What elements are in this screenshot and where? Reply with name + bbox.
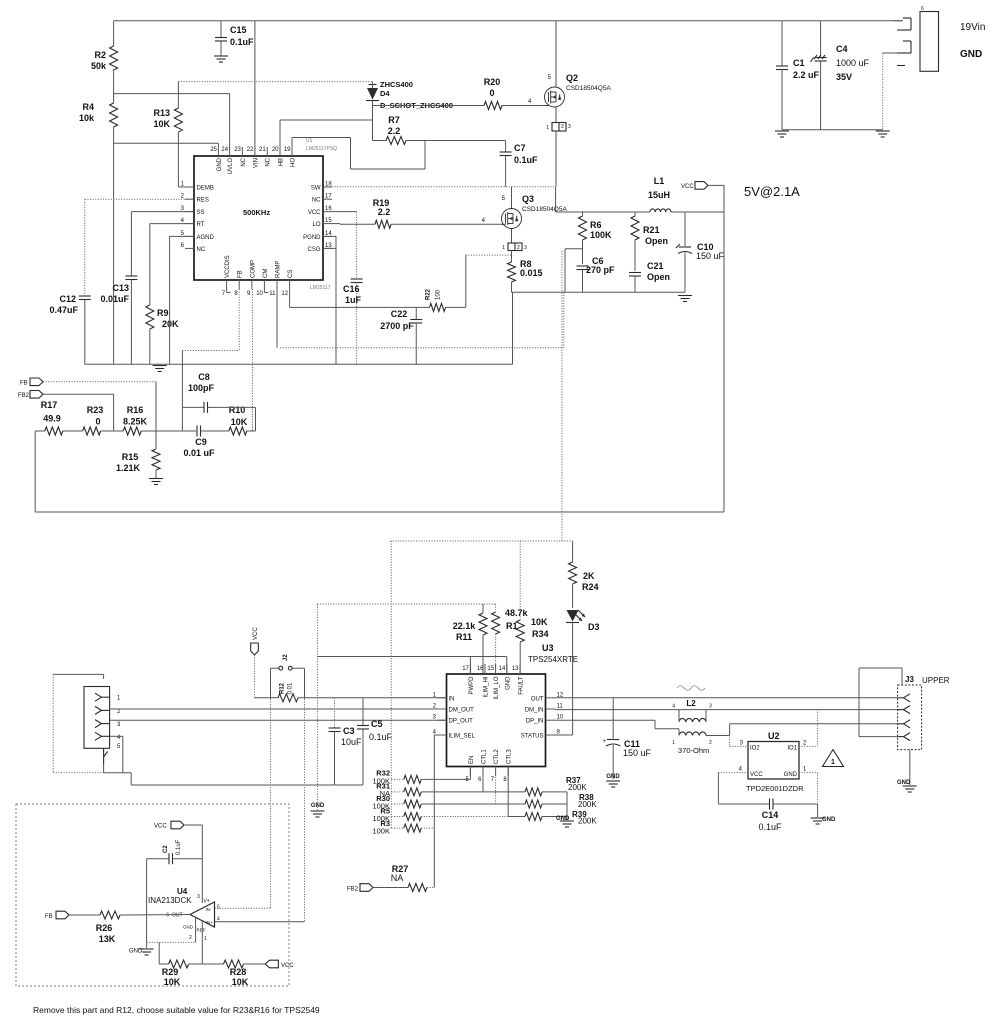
svg-text:TPD2E001DZDR: TPD2E001DZDR	[746, 784, 804, 793]
svg-text:C16: C16	[343, 284, 360, 294]
svg-text:1.21K: 1.21K	[116, 463, 141, 473]
svg-text:24: 24	[221, 147, 228, 153]
svg-text:2: 2	[709, 740, 712, 746]
wire: top VIN rail	[114, 20, 902, 22]
svg-text:5V@2.1A: 5V@2.1A	[744, 184, 800, 199]
svg-text:DEMB: DEMB	[197, 186, 214, 192]
svg-text:3: 3	[709, 704, 712, 710]
svg-text:HO: HO	[291, 158, 297, 167]
svg-text:1: 1	[204, 936, 207, 942]
wire: STATUS/LED	[555, 734, 573, 736]
svg-text:CSD18504Q5A: CSD18504Q5A	[566, 85, 611, 92]
svg-text:50k: 50k	[91, 61, 107, 71]
svg-text:22: 22	[247, 147, 254, 153]
resistor R26	[96, 911, 190, 944]
svg-text:200K: 200K	[568, 783, 587, 792]
svg-text:C7: C7	[514, 143, 526, 153]
ground	[876, 130, 890, 132]
svg-text:0.1uF: 0.1uF	[176, 839, 182, 855]
svg-text:1: 1	[546, 125, 549, 131]
svg-text:16: 16	[325, 206, 332, 212]
svg-text:EN: EN	[469, 756, 475, 764]
svg-text:10K: 10K	[531, 617, 548, 627]
svg-text:500KHz: 500KHz	[243, 208, 270, 217]
svg-text:21: 21	[259, 147, 266, 153]
svg-text:U4: U4	[177, 887, 188, 896]
svg-text:C5: C5	[371, 719, 383, 729]
svg-text:8.25K: 8.25K	[123, 417, 148, 427]
svg-text:10K: 10K	[164, 977, 181, 987]
resistor R19	[332, 198, 502, 228]
svg-text:270 pF: 270 pF	[586, 265, 615, 275]
transistor Q2 CSD18504Q5A	[545, 21, 612, 187]
svg-text:IN+: IN+	[206, 920, 214, 925]
wire: current sense bottom row	[512, 292, 686, 364]
wire: EN tie line down to section 2	[561, 251, 563, 541]
svg-text:DP_OUT: DP_OUT	[449, 719, 474, 725]
svg-text:SS: SS	[197, 210, 205, 216]
svg-text:GND: GND	[183, 925, 194, 930]
svg-text:GND: GND	[784, 772, 798, 778]
svg-text:INA213DCK: INA213DCK	[148, 896, 192, 905]
svg-text:0.1uF: 0.1uF	[369, 732, 393, 742]
svg-text:1: 1	[502, 245, 505, 251]
svg-text:2: 2	[561, 124, 564, 130]
svg-text:VCC: VCC	[308, 210, 321, 216]
svg-text:10uF: 10uF	[341, 737, 362, 747]
svg-text:U3: U3	[542, 643, 554, 653]
wire: ILIM_SEL column	[434, 735, 446, 888]
capacitor C6	[565, 249, 615, 293]
resistor R9	[146, 224, 194, 365]
ground GND	[606, 774, 620, 787]
svg-text:ZHCS400: ZHCS400	[380, 80, 413, 89]
wire: FB pin column	[182, 289, 239, 407]
resistor R13	[153, 82, 182, 144]
resistor R39	[508, 810, 597, 826]
resistor R10	[229, 405, 256, 435]
ground GND	[311, 604, 325, 817]
capacitor C9	[183, 426, 228, 459]
capacitor C2	[147, 839, 203, 948]
svg-text:1uF: 1uF	[345, 295, 362, 305]
svg-text:R11: R11	[456, 632, 472, 642]
wire: U4 gnd/ref	[147, 918, 203, 965]
capacitor C1	[776, 21, 820, 130]
ground	[775, 130, 789, 132]
wire: sense-	[215, 699, 305, 922]
resistor R16	[123, 405, 196, 435]
wire: sense+	[215, 699, 271, 908]
svg-text:16: 16	[477, 666, 484, 672]
svg-text:CTL3: CTL3	[507, 749, 513, 764]
svg-text:100K: 100K	[372, 826, 390, 835]
svg-text:35V: 35V	[836, 72, 852, 82]
wire: OUT row to J3	[555, 697, 898, 699]
wire: ILIM dashed tie	[318, 603, 496, 605]
svg-text:FB2: FB2	[18, 393, 30, 399]
svg-text:R24: R24	[582, 582, 599, 592]
op-amp U3 TPS254XRTE	[433, 643, 578, 783]
svg-text:Remove this part and R12, choo: Remove this part and R12, choose suitabl…	[33, 1005, 320, 1015]
svg-text:NC: NC	[241, 157, 247, 166]
svg-text:370-Ohm: 370-Ohm	[678, 746, 709, 755]
op-amp U1 LM25117 controller IC	[181, 138, 337, 297]
wire: analog ground bus	[85, 363, 513, 365]
svg-text:R9: R9	[157, 308, 169, 318]
svg-text:10K: 10K	[231, 417, 248, 427]
svg-text:2K: 2K	[583, 571, 595, 581]
resistor R34	[516, 541, 548, 674]
svg-text:0.01 uF: 0.01 uF	[183, 448, 215, 458]
wire: DM line	[110, 708, 447, 710]
svg-text:4: 4	[672, 704, 675, 710]
svg-text:19: 19	[284, 147, 291, 153]
svg-text:R6: R6	[590, 220, 602, 230]
svg-text:V+: V+	[204, 899, 210, 905]
svg-text:FAULT: FAULT	[519, 676, 525, 695]
svg-text:C1: C1	[793, 58, 805, 68]
capacitor C15	[214, 21, 254, 62]
svg-text:FB2: FB2	[347, 887, 359, 893]
svg-text:IO2: IO2	[750, 746, 760, 752]
svg-text:R4: R4	[82, 102, 94, 112]
resistor R30	[372, 767, 495, 811]
svg-text:J3: J3	[905, 675, 914, 684]
svg-text:23: 23	[234, 147, 241, 153]
diode D3 LED	[566, 610, 600, 735]
ground GND (C14)	[811, 804, 836, 824]
svg-text:R28: R28	[230, 967, 247, 977]
svg-text:R7: R7	[388, 115, 400, 125]
svg-text:17: 17	[325, 194, 332, 200]
connector J1	[920, 6, 939, 71]
svg-text:NC: NC	[197, 247, 206, 253]
svg-text:GND: GND	[311, 803, 325, 809]
resistor R24	[569, 541, 599, 608]
svg-text:4: 4	[217, 917, 220, 923]
svg-text:0: 0	[489, 88, 494, 98]
svg-text:Open: Open	[647, 272, 670, 282]
svg-text:2: 2	[517, 245, 520, 251]
resistor R32	[372, 767, 470, 786]
node: UVLO divider wire	[114, 94, 230, 150]
resistor R11	[453, 604, 487, 674]
svg-text:100pF: 100pF	[188, 383, 215, 393]
svg-text:CM: CM	[263, 269, 269, 278]
svg-text:Q3: Q3	[522, 194, 534, 204]
svg-text:10k: 10k	[79, 113, 95, 123]
resistor R21	[631, 212, 668, 271]
svg-text:0.01: 0.01	[288, 682, 294, 694]
svg-text:0.1uF: 0.1uF	[758, 822, 782, 832]
capacitor C5	[357, 698, 393, 785]
svg-text:150 uF: 150 uF	[623, 748, 652, 758]
svg-text:ILIM_LO: ILIM_LO	[494, 676, 500, 699]
svg-text:0: 0	[95, 417, 100, 427]
svg-text:NC: NC	[266, 157, 272, 166]
capacitor C4	[811, 21, 870, 130]
svg-text:UVLO: UVLO	[228, 158, 234, 175]
svg-text:U1: U1	[306, 138, 313, 144]
wire: U2 VCC stub	[718, 773, 748, 804]
svg-text:C4: C4	[836, 44, 848, 54]
capacitor C11	[602, 698, 651, 779]
svg-text:100: 100	[436, 289, 442, 300]
svg-text:CTL1: CTL1	[482, 749, 488, 764]
svg-text:C22: C22	[391, 309, 408, 319]
svg-text:VCC: VCC	[154, 824, 167, 830]
svg-text:2.2 uF: 2.2 uF	[793, 70, 820, 80]
resistor R1	[492, 604, 529, 674]
svg-text:3: 3	[568, 124, 571, 130]
resistor R15	[116, 431, 163, 485]
svg-text:R10: R10	[229, 405, 246, 415]
svg-text:ILIM_HI: ILIM_HI	[484, 676, 490, 697]
node FB tag (U4 out)	[45, 911, 100, 920]
capacitor C10	[676, 212, 725, 292]
ground GND (CTL)	[556, 792, 574, 827]
ground	[678, 295, 692, 297]
svg-text:13K: 13K	[99, 934, 116, 944]
svg-text:20: 20	[272, 147, 279, 153]
svg-text:200K: 200K	[578, 817, 597, 826]
svg-text:11: 11	[557, 704, 564, 710]
svg-text:AGND: AGND	[197, 235, 215, 241]
wire: VBUS row	[255, 697, 447, 699]
svg-text:GND: GND	[897, 780, 911, 786]
svg-text:IN-: IN-	[206, 907, 213, 912]
wire: U2 IO2 stub	[730, 729, 748, 747]
svg-text:DM_OUT: DM_OUT	[449, 708, 475, 714]
svg-text:6: 6	[921, 6, 924, 12]
svg-text:1000 uF: 1000 uF	[836, 58, 870, 68]
capacitor C8	[182, 372, 255, 431]
node: optional current-sense block box	[16, 804, 289, 986]
wire: U2 GND stub	[799, 773, 818, 804]
resistor R28	[224, 960, 266, 987]
resistor R2	[91, 21, 118, 94]
capacitor C22	[380, 307, 422, 364]
svg-text:C12: C12	[59, 294, 76, 304]
svg-text:D4: D4	[380, 89, 390, 98]
svg-text:R34: R34	[532, 629, 549, 639]
svg-text:R21: R21	[643, 225, 660, 235]
connector USB input	[84, 687, 121, 765]
svg-text:IO1: IO1	[787, 746, 797, 752]
capacitor C3	[329, 698, 363, 785]
svg-text:CS: CS	[288, 270, 294, 278]
wire: DM_IN row	[555, 709, 898, 711]
svg-text:CSG: CSG	[307, 247, 320, 253]
svg-text:DP_IN: DP_IN	[526, 719, 544, 725]
svg-text:15uH: 15uH	[648, 190, 670, 200]
svg-text:VCC: VCC	[281, 963, 294, 969]
svg-text:25: 25	[210, 147, 217, 153]
svg-text:U2: U2	[768, 731, 780, 741]
capacitor C16	[332, 212, 363, 365]
node: VCC tag to VBUS	[251, 627, 259, 698]
svg-text:14: 14	[499, 666, 506, 672]
svg-text:18: 18	[325, 182, 332, 188]
svg-text:2.2: 2.2	[388, 126, 401, 136]
wire: bank tie columns	[390, 541, 392, 828]
svg-text:0.015: 0.015	[520, 268, 543, 278]
svg-text:R17: R17	[41, 400, 58, 410]
svg-text:100K: 100K	[590, 230, 612, 240]
op-amp U4 INA213DCK	[148, 887, 220, 942]
svg-text:19Vin: 19Vin	[960, 22, 985, 33]
ground GND (J3)	[897, 750, 917, 792]
svg-text:R16: R16	[127, 405, 144, 415]
resistor R17	[35, 400, 82, 435]
svg-text:1: 1	[831, 759, 835, 766]
svg-text:NA: NA	[391, 873, 404, 883]
wire: shield loop	[53, 674, 103, 772]
svg-text:15: 15	[325, 218, 332, 224]
svg-text:TPS254XRTE: TPS254XRTE	[528, 655, 578, 664]
svg-text:12: 12	[281, 291, 288, 297]
svg-text:R29: R29	[162, 967, 179, 977]
ground GND	[129, 949, 154, 956]
svg-text:R15: R15	[122, 452, 139, 462]
svg-text:48.7k: 48.7k	[505, 608, 529, 618]
node VCC tag (U4 supply)	[154, 821, 202, 903]
svg-text:IN: IN	[449, 696, 455, 702]
node: warning triangle 1	[823, 750, 844, 767]
svg-text:RAMP: RAMP	[276, 261, 282, 278]
svg-text:2700 pF: 2700 pF	[380, 321, 414, 331]
svg-text:LM25117: LM25117	[310, 285, 331, 291]
connector J2 jumper	[271, 654, 305, 699]
svg-text:FB: FB	[238, 270, 244, 278]
svg-text:10: 10	[256, 291, 263, 297]
resistor R29	[159, 942, 223, 987]
svg-text:150 uF: 150 uF	[696, 251, 725, 261]
wire: HO connection	[292, 138, 425, 170]
transistor Q3 CSD18504Q5A	[502, 187, 568, 262]
svg-text:R2: R2	[94, 50, 106, 60]
svg-text:COMP: COMP	[250, 260, 256, 278]
svg-text:3: 3	[197, 894, 200, 900]
svg-text:C2: C2	[163, 845, 169, 853]
svg-text:R12: R12	[280, 682, 286, 694]
capacitor C7	[500, 141, 538, 187]
resistor R38	[496, 793, 598, 809]
svg-text:VCC: VCC	[253, 627, 259, 640]
ground	[153, 365, 167, 367]
wire: DP line	[110, 719, 447, 721]
wire: SW node	[332, 187, 556, 212]
svg-text:L2: L2	[686, 699, 696, 708]
svg-text:0.1uF: 0.1uF	[230, 37, 254, 47]
svg-text:11: 11	[269, 291, 276, 297]
wire	[648, 176, 671, 212]
svg-text:VCC: VCC	[681, 184, 694, 190]
svg-text:C14: C14	[762, 810, 779, 820]
svg-text:C3: C3	[343, 726, 355, 736]
svg-text:200K: 200K	[578, 800, 597, 809]
svg-text:FB: FB	[45, 914, 53, 920]
svg-text:J2: J2	[283, 654, 289, 661]
svg-text:5: 5	[217, 905, 220, 911]
svg-text:C15: C15	[230, 25, 247, 35]
node VCC tag (ref divider)	[265, 960, 294, 969]
svg-text:2: 2	[189, 935, 192, 941]
svg-text:LO: LO	[312, 222, 320, 228]
svg-text:R22: R22	[426, 288, 432, 300]
svg-text:CTL2: CTL2	[494, 749, 500, 764]
svg-text:OUT: OUT	[172, 913, 183, 919]
svg-text:SW: SW	[311, 186, 321, 192]
connector J3 UPPER	[898, 675, 950, 750]
svg-text:0.47uF: 0.47uF	[49, 305, 78, 315]
svg-text:6: 6	[166, 913, 169, 919]
wire: U2 IO1 stub	[799, 710, 818, 747]
svg-text:D3: D3	[588, 622, 600, 632]
svg-text:0.01uF: 0.01uF	[100, 294, 129, 304]
svg-text:22.1k: 22.1k	[453, 621, 477, 631]
wire: dashed ground bus	[227, 289, 564, 348]
connector J1 pins	[894, 18, 911, 66]
svg-text:R13: R13	[153, 108, 170, 118]
svg-text:R20: R20	[484, 77, 501, 87]
svg-text:GND: GND	[505, 676, 511, 690]
svg-text:REF: REF	[197, 928, 206, 933]
wire: PGND/CSG return	[323, 236, 336, 364]
wire: COMP pin column	[252, 289, 254, 431]
capacitor C12	[49, 199, 194, 364]
capacitor C14	[718, 799, 817, 833]
svg-text:DM_IN: DM_IN	[525, 708, 544, 714]
op-amp U2 TPD2E001DZDR	[739, 731, 807, 793]
resistor R37	[483, 776, 587, 796]
svg-text:C9: C9	[195, 437, 207, 447]
node FB tag	[20, 378, 156, 431]
wire: DP_IN path	[555, 720, 898, 735]
svg-text:10K: 10K	[232, 977, 249, 987]
resistor R23	[83, 405, 124, 435]
svg-text:1: 1	[672, 740, 675, 746]
svg-text:HB: HB	[279, 158, 285, 166]
svg-text:R23: R23	[87, 405, 104, 415]
svg-text:C13: C13	[112, 283, 129, 293]
wire: dashed pullup rail	[390, 540, 573, 542]
node FB2 tag	[18, 391, 114, 432]
wire: AGND	[170, 236, 194, 364]
node: VCC output tag	[681, 182, 724, 212]
wire: GND pin drop	[883, 53, 897, 130]
svg-text:C8: C8	[198, 372, 210, 382]
svg-text:VCCDIS: VCCDIS	[225, 255, 231, 278]
capacitor C21	[629, 261, 670, 292]
wire: HB connection	[280, 120, 373, 147]
resistor R12	[278, 682, 298, 702]
svg-text:PWPD: PWPD	[469, 676, 475, 695]
svg-text:13: 13	[512, 666, 519, 672]
svg-text:C21: C21	[647, 261, 664, 271]
wire: CS pin filter row	[290, 289, 430, 307]
svg-text:Open: Open	[645, 236, 668, 246]
svg-text:GND: GND	[960, 49, 982, 60]
svg-text:+: +	[602, 739, 606, 745]
svg-text:VIN: VIN	[253, 158, 259, 168]
wire: PWPD row	[318, 657, 507, 675]
svg-text:17: 17	[462, 666, 469, 672]
svg-text:2.2: 2.2	[378, 207, 391, 217]
resistor R27	[347, 864, 434, 893]
svg-text:R26: R26	[96, 923, 113, 933]
